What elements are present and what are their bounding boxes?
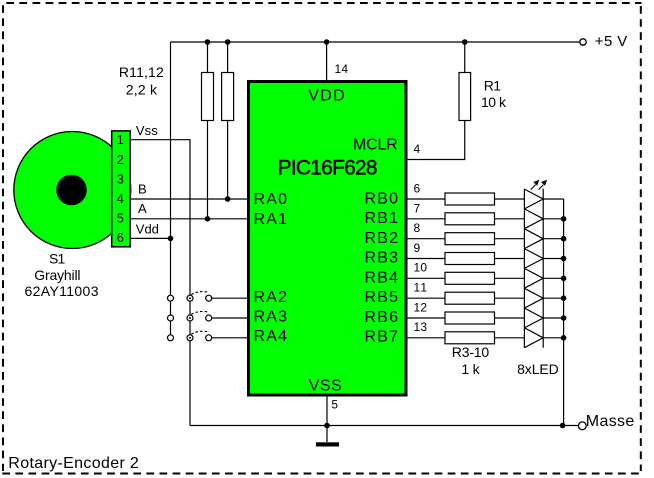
svg-text:7: 7 bbox=[414, 201, 421, 215]
svg-text:VSS: VSS bbox=[309, 378, 342, 395]
svg-text:RB6: RB6 bbox=[365, 309, 399, 326]
svg-text:RA1: RA1 bbox=[254, 211, 288, 228]
svg-text:RB2: RB2 bbox=[365, 230, 399, 247]
svg-text:6: 6 bbox=[414, 182, 421, 196]
svg-text:3: 3 bbox=[117, 171, 124, 186]
svg-text:9: 9 bbox=[414, 241, 421, 255]
svg-text:RB7: RB7 bbox=[365, 328, 399, 345]
svg-text:RB5: RB5 bbox=[365, 289, 399, 306]
svg-text:12: 12 bbox=[414, 300, 428, 314]
svg-text:MCLR: MCLR bbox=[353, 137, 398, 154]
svg-text:10: 10 bbox=[414, 261, 428, 275]
svg-text:14: 14 bbox=[335, 62, 349, 76]
svg-text:2: 2 bbox=[117, 152, 124, 167]
svg-text:Masse: Masse bbox=[586, 413, 635, 430]
svg-text:5: 5 bbox=[331, 398, 338, 412]
svg-text:Vdd: Vdd bbox=[136, 222, 159, 237]
svg-text:2,2 k: 2,2 k bbox=[126, 82, 158, 98]
svg-text:+5 V: +5 V bbox=[595, 33, 628, 50]
svg-text:5: 5 bbox=[117, 211, 124, 226]
svg-text:R1: R1 bbox=[484, 78, 502, 94]
svg-text:R3-10: R3-10 bbox=[452, 344, 490, 360]
svg-text:Rotary-Encoder 2: Rotary-Encoder 2 bbox=[8, 455, 139, 472]
svg-text:6: 6 bbox=[117, 230, 124, 245]
svg-text:RA0: RA0 bbox=[254, 191, 288, 208]
svg-text:1 k: 1 k bbox=[461, 361, 480, 377]
svg-text:1: 1 bbox=[117, 132, 124, 147]
svg-text:4: 4 bbox=[117, 191, 124, 206]
svg-text:8: 8 bbox=[414, 221, 421, 235]
svg-text:VDD: VDD bbox=[308, 88, 345, 105]
svg-text:RA4: RA4 bbox=[254, 328, 288, 345]
svg-text:8xLED: 8xLED bbox=[517, 361, 559, 377]
svg-text:PIC16F628: PIC16F628 bbox=[278, 156, 378, 179]
svg-text:S1: S1 bbox=[49, 251, 66, 267]
svg-text:62AY11003: 62AY11003 bbox=[25, 283, 99, 299]
svg-text:RB3: RB3 bbox=[365, 250, 399, 267]
svg-text:Grayhill: Grayhill bbox=[34, 267, 80, 283]
svg-text:13: 13 bbox=[414, 320, 428, 334]
svg-text:RA2: RA2 bbox=[254, 289, 288, 306]
svg-text:RB1: RB1 bbox=[365, 210, 399, 227]
svg-text:4: 4 bbox=[414, 142, 421, 156]
svg-text:B: B bbox=[138, 182, 147, 197]
svg-text:10 k: 10 k bbox=[481, 94, 507, 110]
svg-text:RA3: RA3 bbox=[254, 308, 288, 325]
svg-text:Vss: Vss bbox=[136, 123, 158, 138]
svg-text:11: 11 bbox=[414, 281, 428, 295]
svg-text:RB0: RB0 bbox=[365, 191, 399, 208]
svg-text:A: A bbox=[138, 201, 147, 216]
svg-text:R11,12: R11,12 bbox=[119, 64, 164, 80]
svg-text:RB4: RB4 bbox=[365, 269, 399, 286]
